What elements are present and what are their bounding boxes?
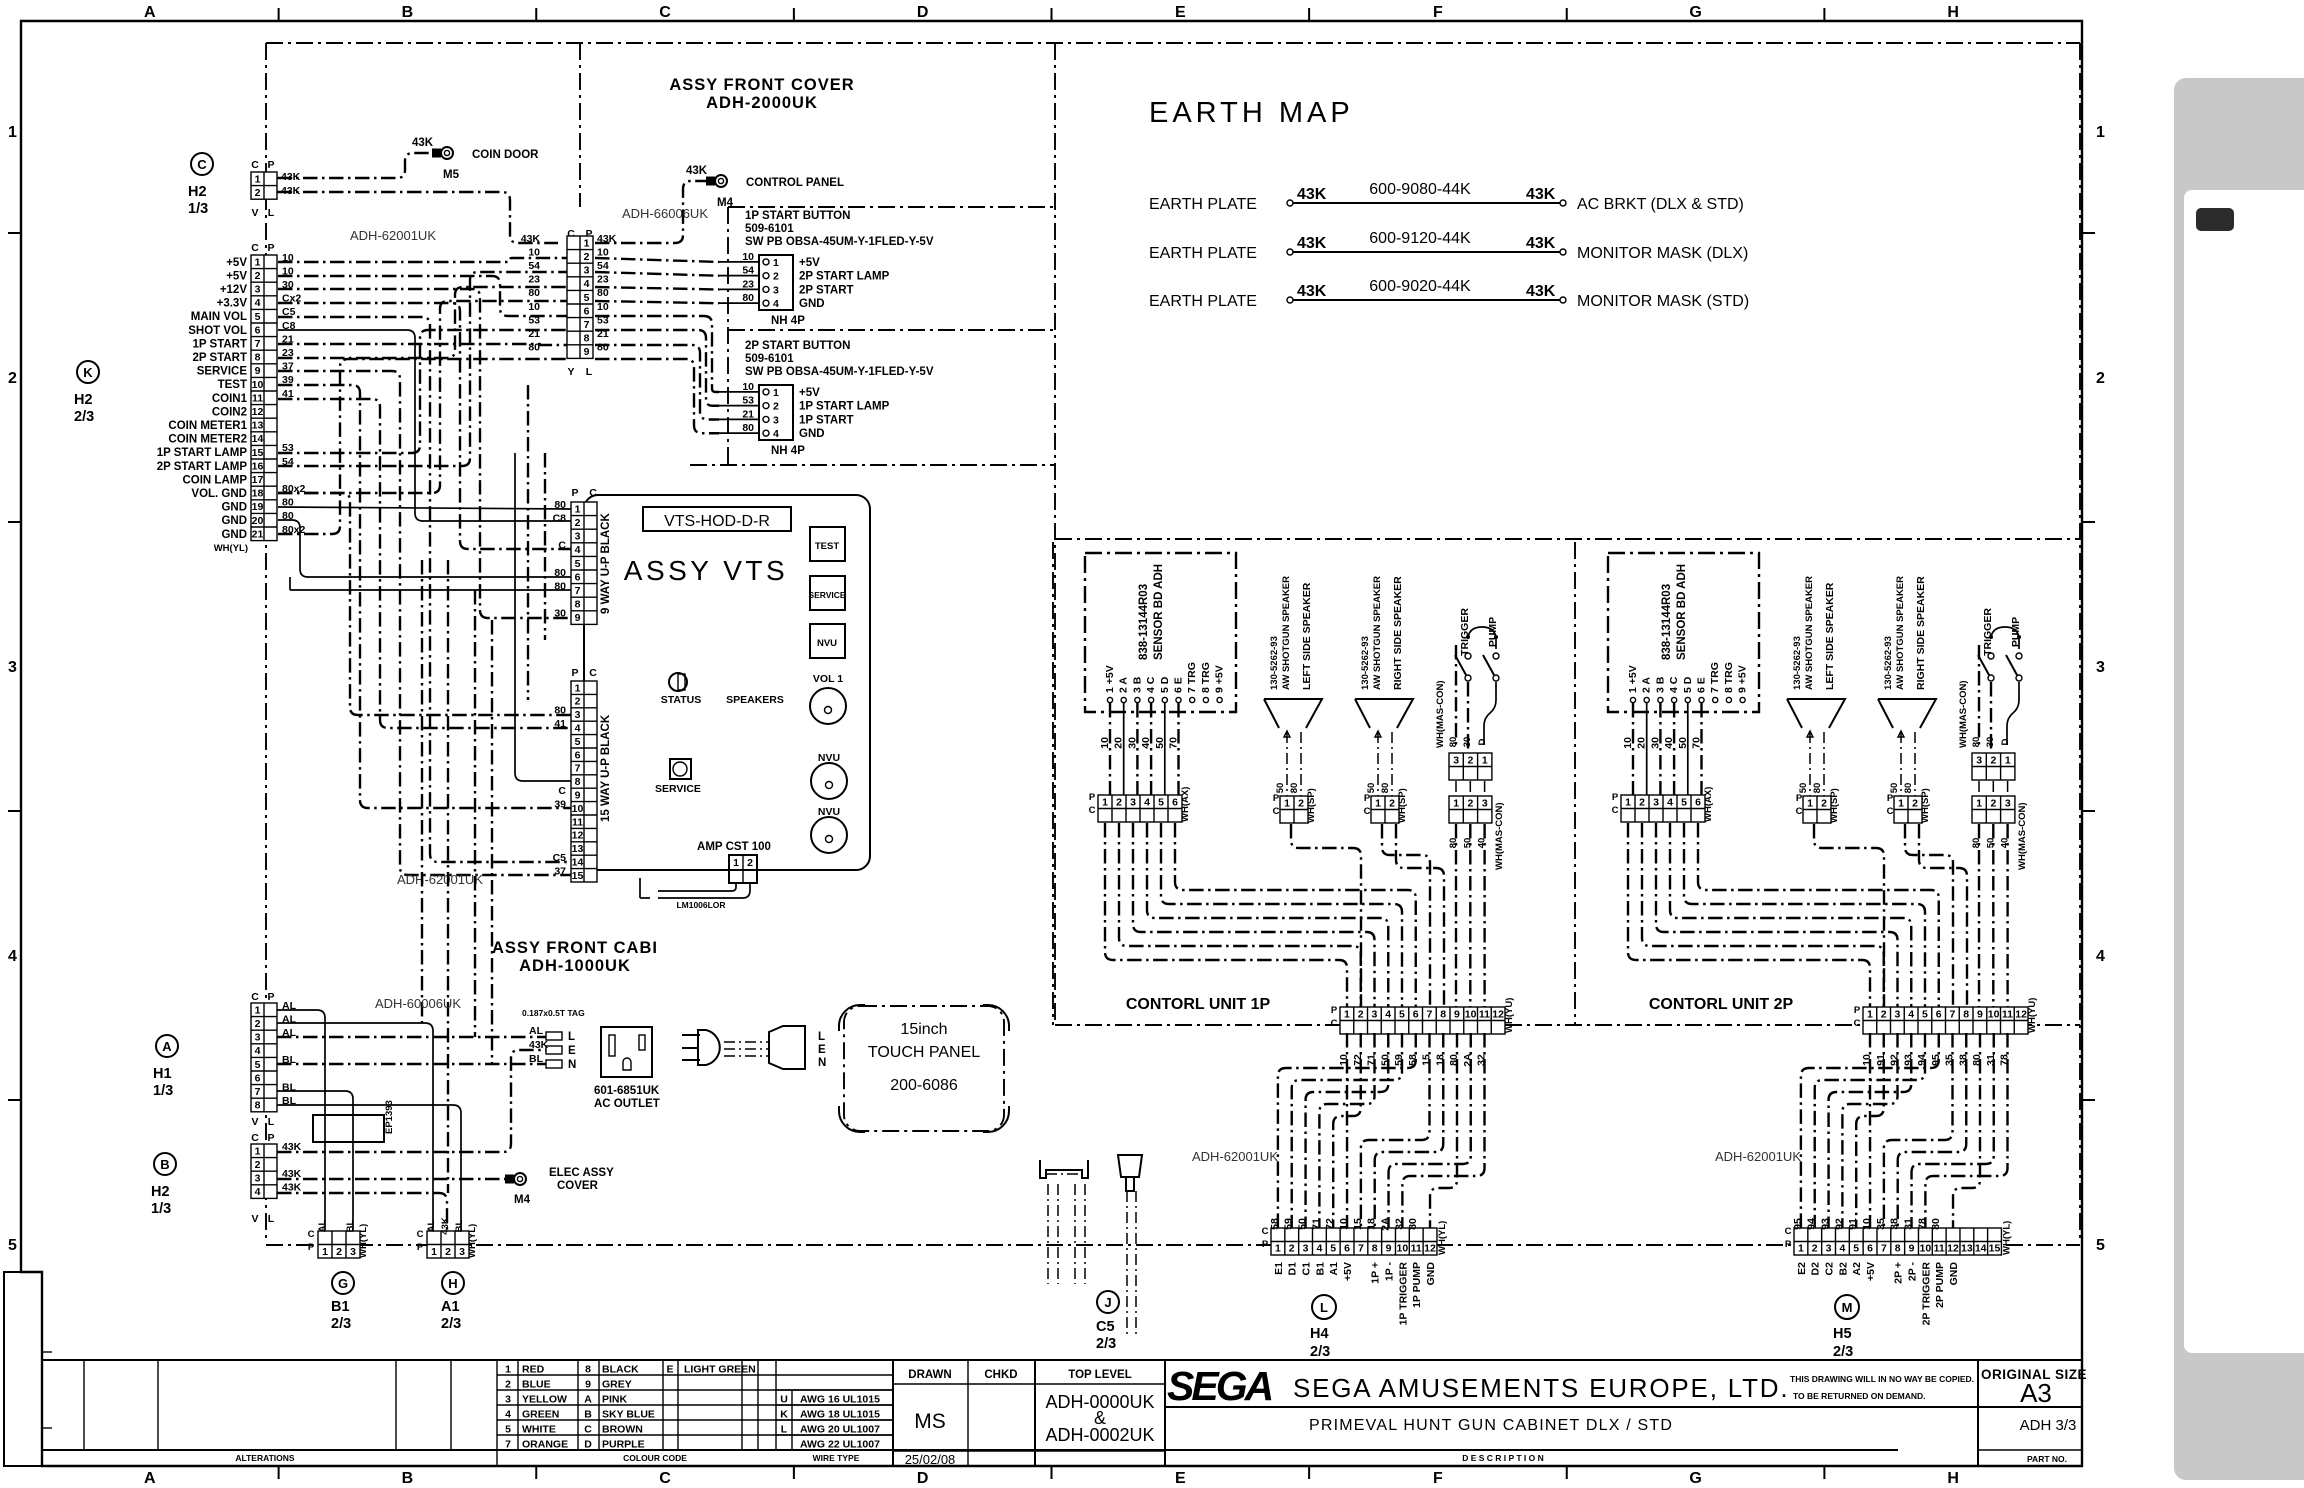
svg-text:3: 3 — [584, 265, 590, 277]
svg-text:2: 2 — [584, 251, 590, 263]
svg-text:LEFT SIDE SPEAKER: LEFT SIDE SPEAKER — [1824, 582, 1836, 690]
svg-text:1: 1 — [1976, 797, 1982, 809]
svg-text:10: 10 — [1338, 1218, 1350, 1230]
svg-text:B1: B1 — [1314, 1262, 1326, 1276]
svg-text:3 B: 3 B — [1131, 676, 1143, 693]
svg-text:3: 3 — [1826, 1243, 1832, 1255]
svg-text:ASSY FRONT CABI: ASSY FRONT CABI — [492, 939, 658, 957]
svg-text:E1: E1 — [1273, 1262, 1285, 1275]
svg-text:ELEC ASSY: ELEC ASSY — [549, 1167, 614, 1179]
svg-text:70: 70 — [1691, 737, 1703, 749]
svg-text:YELLOW: YELLOW — [522, 1394, 567, 1406]
svg-text:SERVICE: SERVICE — [808, 590, 845, 600]
svg-text:SERVICE: SERVICE — [197, 366, 248, 378]
svg-text:130-5262-93: 130-5262-93 — [1360, 636, 1371, 690]
svg-text:2A: 2A — [1380, 1217, 1392, 1231]
svg-text:WH(MAS-CON): WH(MAS-CON) — [1958, 680, 1969, 748]
svg-text:C: C — [558, 785, 566, 797]
svg-text:20: 20 — [1636, 737, 1648, 749]
svg-text:43K: 43K — [282, 1182, 302, 1194]
svg-text:130-5262-93: 130-5262-93 — [1883, 636, 1894, 690]
svg-text:D: D — [917, 4, 929, 21]
svg-text:50: 50 — [1889, 783, 1900, 794]
svg-text:H: H — [1947, 1470, 1959, 1487]
svg-text:71: 71 — [1310, 1218, 1322, 1230]
svg-text:43K: 43K — [1526, 283, 1556, 300]
svg-text:E: E — [1175, 4, 1186, 21]
svg-text:WH(SP): WH(SP) — [1397, 788, 1408, 823]
svg-text:VOL 1: VOL 1 — [813, 673, 843, 685]
svg-text:C: C — [1785, 1226, 1792, 1237]
svg-text:2P START BUTTON: 2P START BUTTON — [745, 340, 850, 352]
title block frame — [42, 1360, 2082, 1466]
svg-text:H2: H2 — [151, 1184, 170, 1200]
svg-text:11: 11 — [1411, 1243, 1422, 1255]
svg-text:C: C — [417, 1229, 424, 1240]
svg-text:10: 10 — [1099, 737, 1111, 749]
svg-text:130-5262-93: 130-5262-93 — [1269, 636, 1280, 690]
svg-text:4: 4 — [773, 428, 779, 440]
svg-text:43K: 43K — [1297, 283, 1327, 300]
svg-text:1: 1 — [1482, 754, 1488, 766]
svg-text:2/3: 2/3 — [441, 1316, 461, 1332]
svg-text:MONITOR MASK (DLX): MONITOR MASK (DLX) — [1577, 245, 1748, 262]
svg-text:3: 3 — [575, 531, 581, 543]
svg-text:CHKD: CHKD — [984, 1369, 1017, 1381]
svg-text:9 +5V: 9 +5V — [1214, 665, 1226, 693]
svg-text:BLUE: BLUE — [522, 1379, 551, 1391]
svg-text:SEGA AMUSEMENTS EUROPE, LTD.: SEGA AMUSEMENTS EUROPE, LTD. — [1293, 1373, 1789, 1403]
wire B4 43K down to H2 — [277, 1193, 447, 1231]
svg-text:2: 2 — [1812, 1243, 1818, 1255]
svg-text:2P TRIGGER: 2P TRIGGER — [1920, 1262, 1932, 1326]
svg-text:80: 80 — [1448, 737, 1459, 748]
svg-text:17: 17 — [252, 474, 264, 486]
svg-text:RED: RED — [522, 1364, 545, 1376]
svg-text:N: N — [568, 1059, 576, 1071]
svg-text:C: C — [1273, 806, 1280, 817]
svg-text:5: 5 — [1158, 796, 1164, 808]
svg-text:2: 2 — [1912, 797, 1918, 809]
wire A8 BL down to H3 — [277, 1105, 461, 1231]
svg-text:600-9120-44K: 600-9120-44K — [1369, 230, 1471, 247]
svg-text:3: 3 — [1371, 1008, 1377, 1020]
svg-text:C: C — [197, 157, 207, 172]
svg-text:L: L — [268, 207, 275, 219]
svg-text:1P PUMP: 1P PUMP — [1411, 1262, 1423, 1308]
svg-text:15inch: 15inch — [900, 1021, 947, 1038]
S-bundle 12-pin to bottom connector 1P — [1346, 1033, 1348, 1228]
svg-text:3: 3 — [1894, 1008, 1900, 1020]
wire A5 BL to N tag — [277, 1063, 546, 1065]
svg-text:2: 2 — [1881, 1008, 1887, 1020]
svg-text:1: 1 — [773, 387, 779, 399]
svg-text:80: 80 — [554, 705, 566, 717]
svg-text:CONTORL UNIT 1P: CONTORL UNIT 1P — [1126, 996, 1271, 1013]
svg-text:80: 80 — [597, 287, 609, 299]
svg-text:1/3: 1/3 — [153, 1083, 173, 1099]
svg-text:1: 1 — [733, 857, 739, 869]
svg-text:13: 13 — [1961, 1243, 1973, 1255]
svg-text:4: 4 — [1385, 1008, 1391, 1020]
svg-text:WH(YL): WH(YL) — [1437, 1221, 1448, 1255]
symbol H circle A1 2/3 — [442, 1272, 464, 1294]
svg-text:P: P — [267, 242, 274, 254]
left speaker 2P — [1787, 699, 1845, 728]
svg-text:4: 4 — [1839, 1243, 1845, 1255]
svg-text:L: L — [818, 1031, 825, 1043]
sensor board wires 2P — [1632, 703, 1634, 795]
svg-text:2: 2 — [1298, 797, 1304, 809]
svg-text:10: 10 — [597, 301, 609, 313]
svg-text:80: 80 — [554, 499, 566, 511]
svg-text:40: 40 — [2000, 838, 2011, 849]
svg-text:54: 54 — [597, 260, 609, 272]
svg-text:WHITE: WHITE — [522, 1424, 556, 1436]
svg-text:D: D — [2000, 738, 2011, 745]
symbol G circle B1 2/3 — [332, 1272, 354, 1294]
wire A7 BL down to G3 — [277, 1091, 353, 1231]
svg-text:80: 80 — [1930, 1218, 1942, 1230]
svg-text:1: 1 — [1898, 797, 1904, 809]
svg-text:80: 80 — [528, 287, 540, 299]
svg-text:1P START LAMP: 1P START LAMP — [157, 447, 248, 459]
svg-text:91: 91 — [1847, 1218, 1859, 1230]
svg-text:1: 1 — [2005, 754, 2011, 766]
svg-text:6: 6 — [1936, 1008, 1942, 1020]
svg-text:GND: GND — [1948, 1262, 1960, 1286]
svg-text:10: 10 — [1622, 737, 1634, 749]
svg-text:18: 18 — [252, 488, 264, 500]
svg-text:ADH-0002UK: ADH-0002UK — [1045, 1425, 1154, 1445]
svg-text:2/3: 2/3 — [1096, 1336, 1116, 1352]
svg-text:5: 5 — [575, 558, 581, 570]
svg-text:ADH 3/3: ADH 3/3 — [2020, 1417, 2077, 1434]
svg-text:PRIMEVAL HUNT GUN CABINET DLX: PRIMEVAL HUNT GUN CABINET DLX / STD — [1309, 1417, 1673, 1434]
svg-text:80: 80 — [1812, 783, 1823, 794]
svg-text:2: 2 — [1358, 1008, 1364, 1020]
svg-text:P: P — [308, 1242, 315, 1253]
svg-text:32: 32 — [1393, 1218, 1405, 1230]
svg-text:1 +5V: 1 +5V — [1627, 665, 1639, 693]
svg-text:ADH-62001UK: ADH-62001UK — [1192, 1149, 1278, 1164]
svg-text:+12V: +12V — [220, 284, 248, 296]
svg-text:80: 80 — [1903, 783, 1914, 794]
svg-text:L: L — [1320, 1300, 1328, 1315]
svg-text:14: 14 — [1975, 1243, 1987, 1255]
svg-text:EARTH PLATE: EARTH PLATE — [1149, 293, 1257, 310]
svg-text:8: 8 — [1895, 1243, 1901, 1255]
svg-text:AWG 18 UL1015: AWG 18 UL1015 — [800, 1409, 880, 1421]
svg-text:12: 12 — [572, 830, 584, 842]
svg-text:ORANGE: ORANGE — [522, 1439, 568, 1451]
svg-text:SPEAKERS: SPEAKERS — [726, 694, 784, 706]
svg-text:DRAWN: DRAWN — [908, 1369, 951, 1381]
svg-text:12: 12 — [1424, 1243, 1436, 1255]
svg-text:40: 40 — [1477, 838, 1488, 849]
svg-text:BROWN: BROWN — [602, 1424, 643, 1436]
svg-text:3: 3 — [350, 1246, 356, 1258]
svg-text:AL: AL — [426, 1219, 437, 1232]
svg-text:838-13144R03: 838-13144R03 — [1138, 584, 1150, 660]
svg-text:1: 1 — [1867, 1008, 1873, 1020]
control unit 2P sensor board box 838-15144R03 — [1608, 553, 1759, 712]
svg-text:GREEN: GREEN — [522, 1409, 559, 1421]
svg-text:2P START LAMP: 2P START LAMP — [157, 461, 248, 473]
svg-text:H2: H2 — [188, 184, 207, 200]
svg-text:3: 3 — [1482, 797, 1488, 809]
svg-text:PART NO.: PART NO. — [2027, 1454, 2067, 1464]
svg-text:P: P — [1331, 1005, 1338, 1016]
svg-text:4: 4 — [575, 723, 581, 735]
svg-text:ADH-66006UK: ADH-66006UK — [622, 206, 708, 221]
svg-text:H1: H1 — [153, 1066, 172, 1082]
svg-text:2: 2 — [1289, 1243, 1295, 1255]
area boundary dash-dot lines — [266, 42, 2080, 44]
svg-text:RIGHT SIDE SPEAKER: RIGHT SIDE SPEAKER — [1915, 576, 1927, 690]
wire A1 AL down to G1 — [277, 1010, 325, 1231]
svg-text:2: 2 — [255, 1159, 261, 1171]
svg-text:50: 50 — [1154, 737, 1166, 749]
svg-text:C: C — [659, 4, 671, 21]
svg-text:GND: GND — [221, 515, 247, 527]
svg-text:D E S C R I P T I O N: D E S C R I P T I O N — [1462, 1453, 1544, 1463]
svg-text:9: 9 — [1909, 1243, 1915, 1255]
svg-text:P: P — [1887, 793, 1894, 804]
svg-text:C2: C2 — [1824, 1262, 1836, 1276]
svg-text:WH(AX): WH(AX) — [1180, 787, 1191, 822]
svg-text:C: C — [251, 242, 259, 254]
svg-text:3: 3 — [773, 284, 779, 296]
svg-text:2: 2 — [8, 370, 17, 387]
svg-text:7: 7 — [575, 585, 581, 597]
switch wires 1P — [1484, 682, 1496, 745]
svg-text:E: E — [666, 1364, 673, 1376]
svg-text:4: 4 — [1144, 796, 1150, 808]
svg-text:3: 3 — [1653, 796, 1659, 808]
coin door ring terminal M5 — [441, 147, 453, 159]
svg-text:7: 7 — [1881, 1243, 1887, 1255]
svg-text:5: 5 — [2096, 1237, 2105, 1254]
NVU button box — [810, 624, 845, 658]
svg-text:E: E — [818, 1044, 826, 1056]
svg-text:C: C — [1854, 1018, 1861, 1029]
svg-text:C: C — [1262, 1226, 1269, 1237]
svg-text:WH(MAS-CON): WH(MAS-CON) — [1494, 802, 1505, 870]
svg-text:P: P — [1089, 792, 1096, 803]
svg-text:3 B: 3 B — [1654, 676, 1666, 693]
svg-text:2: 2 — [1468, 797, 1474, 809]
svg-text:19: 19 — [252, 501, 264, 513]
svg-text:ASSY VTS: ASSY VTS — [624, 555, 788, 586]
mains plug symbol — [682, 1034, 700, 1036]
svg-text:2: 2 — [773, 271, 779, 283]
elec assy cover ring terminal M4 — [514, 1173, 526, 1185]
svg-text:AL: AL — [529, 1025, 544, 1037]
svg-text:LEFT SIDE SPEAKER: LEFT SIDE SPEAKER — [1301, 582, 1313, 690]
svg-text:3: 3 — [255, 284, 261, 296]
svg-text:E2: E2 — [1796, 1262, 1808, 1275]
svg-text:4 C: 4 C — [1145, 676, 1157, 693]
svg-text:V: V — [251, 1116, 258, 1128]
svg-text:9: 9 — [584, 346, 590, 358]
svg-text:5: 5 — [505, 1424, 511, 1436]
reference symbol K circle H2 2/3 — [77, 361, 99, 383]
svg-text:13: 13 — [572, 843, 584, 855]
svg-text:WH(YL): WH(YL) — [214, 543, 248, 554]
svg-text:SKY BLUE: SKY BLUE — [602, 1409, 655, 1421]
svg-text:30: 30 — [1649, 737, 1661, 749]
left speaker 1P — [1264, 699, 1322, 728]
svg-text:31: 31 — [1903, 1218, 1915, 1230]
svg-text:1P -: 1P - — [1384, 1262, 1396, 1282]
svg-text:1: 1 — [1375, 797, 1381, 809]
svg-text:6 E: 6 E — [1173, 677, 1185, 693]
connector WH(MAS-CON) lower 1P — [1449, 796, 1492, 823]
svg-text:+3.3V: +3.3V — [217, 298, 248, 310]
svg-text:1: 1 — [773, 257, 779, 269]
svg-text:54: 54 — [528, 260, 540, 272]
svg-text:B2: B2 — [1837, 1262, 1849, 1276]
svg-text:9: 9 — [1454, 1008, 1460, 1020]
svg-text:C: C — [1364, 806, 1371, 817]
svg-text:P: P — [417, 1242, 424, 1253]
svg-text:5: 5 — [1922, 1008, 1928, 1020]
svg-text:MONITOR MASK (STD): MONITOR MASK (STD) — [1577, 293, 1749, 310]
svg-text:TEST: TEST — [218, 379, 247, 391]
viewer sidebar white page panel — [2184, 190, 2304, 1353]
svg-text:8: 8 — [575, 776, 581, 788]
svg-text:WH(YU): WH(YU) — [1504, 998, 1515, 1033]
svg-text:50: 50 — [1985, 838, 1996, 849]
right speaker 1P — [1355, 699, 1413, 728]
svg-text:COIN LAMP: COIN LAMP — [182, 474, 247, 486]
svg-text:D: D — [917, 1470, 929, 1487]
svg-text:AL: AL — [317, 1219, 328, 1232]
svg-text:7: 7 — [1358, 1243, 1364, 1255]
S-bundle 12-pin to bottom connector 2P — [1869, 1033, 1871, 1228]
touch panel connector bracket — [1040, 1160, 1088, 1178]
svg-text:2: 2 — [1639, 796, 1645, 808]
svg-text:B1: B1 — [331, 1299, 350, 1315]
svg-text:15: 15 — [252, 447, 264, 459]
svg-text:A: A — [144, 4, 156, 21]
svg-text:COIN DOOR: COIN DOOR — [472, 149, 539, 161]
svg-text:P: P — [571, 667, 578, 679]
svg-text:NH 4P: NH 4P — [771, 445, 805, 457]
svg-text:C: C — [589, 487, 597, 499]
bundle WH(AX) to 12-pin 1P — [1105, 823, 1347, 1007]
svg-text:3: 3 — [505, 1394, 511, 1406]
svg-text:10: 10 — [572, 803, 584, 815]
svg-text:6: 6 — [575, 749, 581, 761]
svg-text:2P START: 2P START — [799, 284, 854, 296]
svg-text:6: 6 — [255, 324, 261, 336]
svg-text:92: 92 — [1833, 1218, 1845, 1230]
svg-text:4: 4 — [1316, 1243, 1322, 1255]
svg-text:SW PB OBSA-45UM-Y-1FLED-Y-5V: SW PB OBSA-45UM-Y-1FLED-Y-5V — [745, 366, 934, 378]
svg-text:2: 2 — [1116, 796, 1122, 808]
sensor board wires 1P — [1109, 703, 1111, 795]
svg-text:5: 5 — [1399, 1008, 1405, 1020]
svg-text:GND: GND — [1425, 1262, 1437, 1286]
svg-text:ADH-62001UK: ADH-62001UK — [1715, 1149, 1801, 1164]
wire bundle from 21-pin connector — [278, 258, 567, 262]
original size A3 — [1977, 1360, 1979, 1466]
svg-text:2: 2 — [1821, 797, 1827, 809]
svg-text:C: C — [308, 1229, 315, 1240]
svg-text:C5: C5 — [553, 852, 567, 864]
svg-text:12: 12 — [1492, 1008, 1504, 1020]
svg-text:80: 80 — [554, 567, 566, 579]
svg-text:MS: MS — [914, 1410, 946, 1433]
control unit 1P sensor board box 838-15144R03 — [1085, 553, 1236, 712]
svg-text:2: 2 — [255, 187, 261, 199]
svg-text:ASSY FRONT COVER: ASSY FRONT COVER — [669, 76, 854, 94]
svg-text:COIN1: COIN1 — [212, 393, 248, 405]
svg-text:5 D: 5 D — [1682, 676, 1694, 693]
svg-text:4: 4 — [505, 1409, 511, 1421]
control panel ring terminal M4 — [715, 175, 727, 187]
svg-text:1: 1 — [1284, 797, 1290, 809]
svg-text:7: 7 — [505, 1439, 511, 1451]
wire 43K to control panel via connector — [277, 192, 558, 243]
svg-text:50: 50 — [1297, 1218, 1309, 1230]
SERVICE push button — [670, 759, 691, 779]
svg-text:6: 6 — [1344, 1243, 1350, 1255]
svg-text:2/3: 2/3 — [1310, 1344, 1330, 1360]
svg-text:P: P — [267, 991, 274, 1003]
svg-text:43K: 43K — [1526, 186, 1556, 203]
svg-text:BL: BL — [345, 1219, 356, 1232]
svg-text:5 D: 5 D — [1159, 676, 1171, 693]
svg-text:C: C — [251, 991, 259, 1003]
svg-text:C: C — [251, 159, 259, 171]
svg-text:5: 5 — [255, 1059, 261, 1071]
svg-text:WH(YL): WH(YL) — [467, 1224, 478, 1258]
svg-text:9: 9 — [575, 790, 581, 802]
EP1393 relay box — [313, 1115, 384, 1142]
svg-text:6 E: 6 E — [1696, 677, 1708, 693]
15inch touch panel box — [844, 1006, 1004, 1131]
right speaker 2P — [1878, 699, 1936, 728]
svg-text:3: 3 — [2096, 659, 2105, 676]
svg-text:A: A — [144, 1470, 156, 1487]
svg-text:4: 4 — [584, 278, 590, 290]
svg-text:1P START BUTTON: 1P START BUTTON — [745, 210, 850, 222]
svg-text:G: G — [338, 1276, 348, 1291]
svg-text:COLOUR CODE: COLOUR CODE — [623, 1453, 687, 1463]
symbol J circle C5 2/3 — [1097, 1291, 1119, 1313]
svg-text:GND: GND — [221, 502, 247, 514]
svg-text:BL: BL — [454, 1219, 465, 1232]
wires middle connector to 1P start button — [595, 258, 719, 262]
svg-text:43K: 43K — [440, 1217, 451, 1235]
svg-text:9 +5V: 9 +5V — [1737, 665, 1749, 693]
svg-text:1: 1 — [1102, 796, 1108, 808]
svg-text:+5V: +5V — [226, 270, 247, 282]
wire 80 solid to 9-way pin7 — [290, 589, 571, 591]
svg-text:M4: M4 — [717, 197, 734, 209]
touch panel wires — [1047, 1184, 1049, 1284]
svg-text:+5V: +5V — [1865, 1262, 1877, 1281]
svg-text:9: 9 — [575, 612, 581, 624]
svg-text:C: C — [1796, 806, 1803, 817]
svg-text:10: 10 — [597, 246, 609, 258]
svg-text:6: 6 — [1867, 1243, 1873, 1255]
svg-text:+5V: +5V — [1342, 1262, 1354, 1281]
svg-text:72: 72 — [1324, 1218, 1336, 1230]
